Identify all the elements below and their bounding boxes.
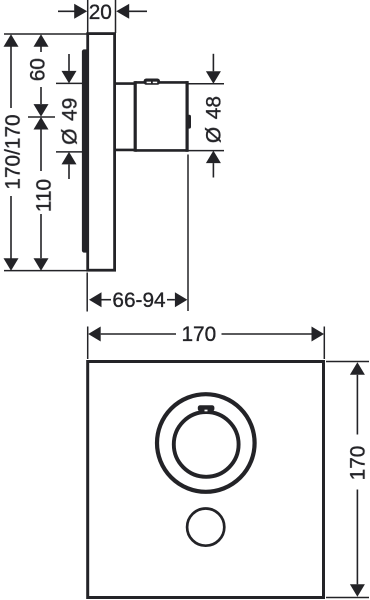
- dimension D49 tick top: [56, 82, 83, 84]
- front plate square: [88, 362, 324, 598]
- dimension D48 tick top: [187, 83, 224, 85]
- svg-text:Ø 48: Ø 48: [203, 96, 226, 143]
- handle joint line (side view): [134, 81, 137, 152]
- dimension 170 right arrow top: [350, 362, 365, 375]
- dimension 60 arrow bottom: [34, 104, 49, 117]
- handle inner circle (front view): [174, 412, 239, 477]
- dimension 60 line lower: [40, 87, 42, 104]
- wall flange strip (side view): [82, 49, 89, 252]
- extension line plate bottom: [4, 270, 87, 272]
- dimension D48 arrow bottom (pointing up): [206, 151, 221, 164]
- dimension 170 top line left: [101, 333, 176, 335]
- svg-text:170/170: 170/170: [2, 114, 25, 189]
- extension line front view top-left: [87, 327, 89, 360]
- handle bottom edge (side view): [135, 149, 188, 152]
- dimension 20 arrow right (pointing left): [116, 4, 129, 19]
- dimension 66-94 line left: [102, 299, 112, 301]
- tick at handle centerline: [28, 116, 55, 118]
- svg-text:170: 170: [181, 323, 216, 346]
- dimension 66-94 arrow right: [175, 292, 188, 307]
- dimension 110 arrow bottom: [34, 258, 49, 271]
- dimension 20 arrow left (pointing right): [74, 4, 87, 19]
- dimension 170 top arrow right: [312, 327, 325, 342]
- extension line right of dim 20: [115, 0, 117, 33]
- dimension D49 top tail: [68, 54, 70, 71]
- dimension 170/170 line lower: [10, 196, 12, 259]
- extension line 66-94 left: [86, 273, 88, 312]
- svg-text:60: 60: [27, 58, 50, 81]
- dimension D49 arrow top (pointing down): [62, 71, 77, 84]
- dimension 170 right line lower: [356, 490, 358, 585]
- handle top edge (side view): [135, 81, 188, 84]
- dimension D48 tick bottom: [187, 150, 224, 152]
- extension line 66-94 right: [187, 155, 189, 312]
- svg-text:110: 110: [33, 179, 56, 212]
- svg-text:170: 170: [347, 446, 370, 481]
- dimension 170/170 arrow top: [4, 34, 19, 47]
- handle front edge (side view): [186, 81, 189, 152]
- safety button tab white dashes: [147, 81, 151, 83]
- safety button tab (front view): [198, 405, 215, 411]
- dimension D48 arrow top (pointing down): [206, 71, 221, 84]
- dimension D48 bottom tail: [212, 163, 214, 177]
- dimension 66-94 arrow left: [89, 292, 102, 307]
- select button circle (front view): [187, 508, 224, 545]
- dimension 110 arrow top: [34, 117, 49, 130]
- svg-text:66-94: 66-94: [112, 289, 165, 312]
- safety button tab notch (front view): [205, 410, 208, 412]
- sleeve bottom edge (side view): [115, 149, 136, 152]
- dimension 170 right line upper: [356, 375, 358, 435]
- dimension 170 top arrow left: [88, 327, 101, 342]
- dimension D49 tick bottom: [56, 151, 83, 153]
- extension line left of dim 20: [87, 0, 89, 33]
- dimension 110 line upper: [40, 130, 42, 172]
- dimension 170/170 line upper: [10, 46, 12, 108]
- svg-text:Ø 49: Ø 49: [59, 98, 82, 145]
- sleeve top edge (side view): [115, 82, 136, 85]
- dimension 20 line left segment: [58, 10, 75, 12]
- svg-text:20: 20: [89, 1, 112, 24]
- safety button tab (side view): [144, 79, 160, 85]
- dimension D48 top tail: [212, 54, 214, 72]
- extension line plate top: [4, 33, 88, 35]
- dimension 60 line upper: [40, 46, 42, 52]
- dimension D49 arrow bottom (pointing up): [62, 152, 77, 165]
- dimension D49 bottom tail: [68, 164, 70, 179]
- extension line front view right-bottom: [326, 597, 369, 599]
- dimension 110 line lower: [40, 214, 42, 258]
- dimension 170 top line right: [222, 333, 312, 335]
- handle grip bump (side view): [187, 115, 191, 129]
- dimension 66-94 line right: [167, 299, 175, 301]
- extension line front view top-right: [323, 327, 325, 360]
- dimension 170 right arrow bottom: [350, 584, 365, 597]
- extension line front view right-top: [326, 361, 369, 363]
- dimension 170/170 arrow bottom: [4, 258, 19, 271]
- dimension 20 line right segment: [129, 10, 147, 12]
- plate side view: [88, 34, 115, 271]
- dimension 60 arrow top: [34, 34, 49, 47]
- handle outer ring (front view): [157, 394, 255, 492]
